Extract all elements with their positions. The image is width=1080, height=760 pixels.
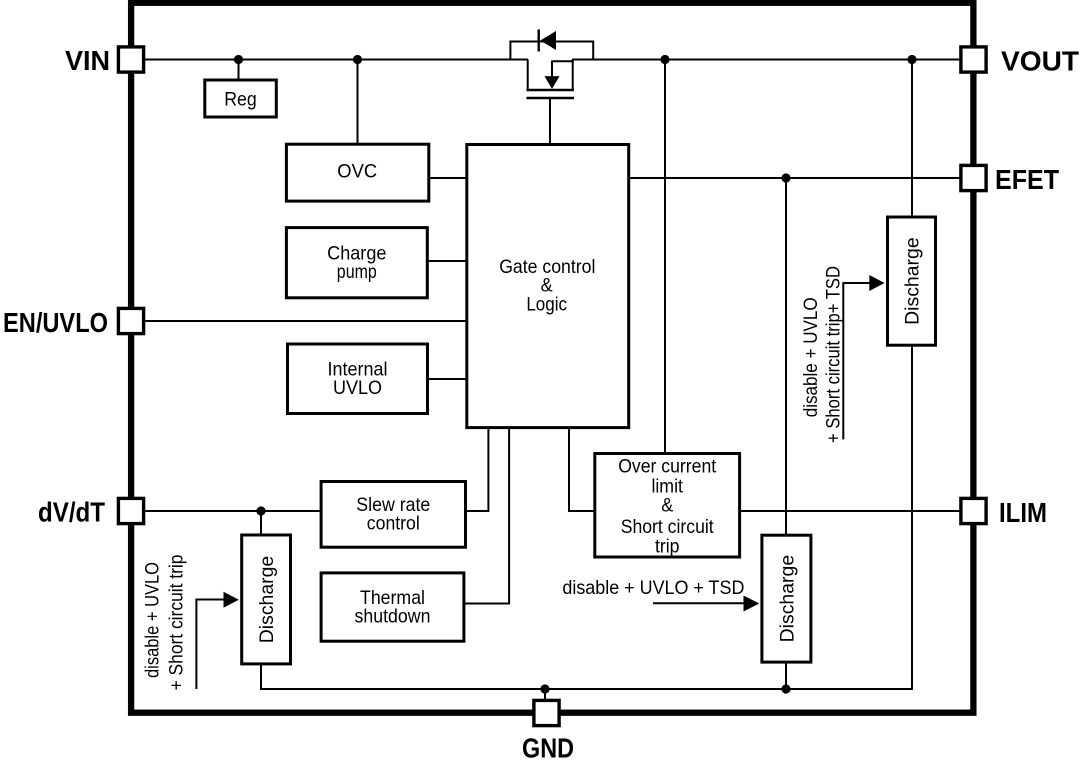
block Discharge U3 top right [888,217,936,345]
drain side stub [551,60,573,62]
node junction ground rail-GND [540,684,549,693]
top wire [509,41,594,43]
IC outline frame [131,3,973,713]
wire Slew rate control to Gate control [467,429,489,511]
svg-text:dV/dT: dV/dT [38,497,105,528]
right drain leg [572,60,574,91]
svg-text:OVC: OVC [337,161,377,183]
arrow into Discharge U3 [843,275,884,439]
wire VOUT to Discharge U3 top [911,60,913,217]
wire EFET junction to Discharge U4 top [785,178,787,534]
body arrow head [544,76,559,89]
pin EFET [961,165,986,190]
transistor Q1 pass FET [527,60,575,99]
node junction VOUT-discharge [907,55,916,64]
svg-text:EN/UVLO: EN/UVLO [3,307,108,338]
left stub [509,42,511,60]
svg-text:pump: pump [337,261,377,283]
svg-text:trip: trip [655,536,680,558]
channel bar [527,89,575,91]
svg-text:+ Short circuit trip+ TSD: + Short circuit trip+ TSD [823,266,845,443]
wire Thermal shutdown to Gate control [465,429,509,604]
gate bar [527,97,575,99]
svg-text:UVLO: UVLO [333,377,382,399]
block OVC [286,144,428,201]
wire Discharge U2 bottom to ground rail [261,665,912,689]
pin dV/dT [118,498,143,523]
wire VIN to Reg [238,60,240,80]
block Charge pump [286,228,427,298]
svg-text:+ Short circuit trip: + Short circuit trip [166,554,188,690]
block Over current limit & Short circuit trip [595,454,740,558]
wire Over current block to ILIM [741,510,961,512]
block Slew rate control [321,482,465,548]
svg-text:disable + UVLO: disable + UVLO [142,562,164,678]
block Gate control & Logic U1 [467,145,629,428]
svg-text:disable + UVLO: disable + UVLO [800,297,822,417]
wire EFET [630,177,962,179]
wire main rail to Over current block [664,60,666,453]
svg-text:Reg: Reg [224,88,257,110]
block Discharge U4 bottom right [762,535,811,662]
svg-text:Discharge: Discharge [776,555,798,643]
svg-text:&: & [661,495,673,517]
svg-text:shutdown: shutdown [355,606,431,628]
svg-text:EFET: EFET [995,164,1059,195]
svg-text:VIN: VIN [65,45,110,76]
block Internal UVLO [288,344,428,414]
pin EN/UVLO [118,308,143,333]
svg-text:Short circuit: Short circuit [621,516,715,538]
pin VOUT [961,47,986,72]
block Reg [205,80,276,117]
cathode bar [538,30,540,52]
svg-text:Over current: Over current [618,456,717,478]
wire OVC to Gate control [430,177,466,179]
pin GND [534,700,559,725]
svg-text:GND: GND [522,733,574,760]
wire VIN main rail right [572,59,961,61]
svg-text:control: control [367,513,420,535]
node junction VIN-OVC [353,55,362,64]
wire Gate control to Over current block left [569,429,594,511]
node junction ground rail-discharge U4 [781,684,790,693]
svg-text:Discharge: Discharge [256,556,278,644]
pin VIN [118,47,143,72]
wire Internal UVLO to Gate control [428,378,466,380]
node junction dV/dT-discharge [256,506,265,515]
block Thermal shutdown [321,573,464,641]
svg-text:Logic: Logic [526,294,567,316]
left source leg [527,60,529,91]
node junction EFET-discharge [781,173,790,182]
node junction main rail-overcurrent [660,55,669,64]
svg-text:VOUT: VOUT [1001,46,1079,77]
pin ILIM [961,498,986,523]
svg-text:disable + UVLO + TSD: disable + UVLO + TSD [562,577,744,599]
arrow into Discharge U4 [653,596,759,612]
wire dV/dT junction to Discharge U2 top [260,511,262,534]
right stub [592,42,594,60]
wire Discharge U3 bottom to ground rail [911,346,913,690]
wire EN/UVLO to Gate control [143,320,466,322]
svg-text:ILIM: ILIM [999,497,1047,528]
block Discharge U2 bottom left [242,535,291,664]
wire VIN main rail left [143,59,528,61]
wire VIN to OVC [357,60,359,144]
arrow into Discharge U2 [196,592,238,689]
wire dV/dT to Slew rate control [143,510,320,512]
wire Discharge U4 bottom to ground rail [785,664,787,690]
wire Charge pump to Gate control [428,260,466,262]
wire MOSFET gate lead [549,98,551,144]
node junction VIN-Reg [234,55,243,64]
wire ground rail to GND pin [544,689,546,701]
anode triangle [540,31,556,50]
body arrow stem [551,61,553,77]
svg-text:Discharge: Discharge [902,237,924,325]
diode D1 body diode loop [509,30,594,60]
